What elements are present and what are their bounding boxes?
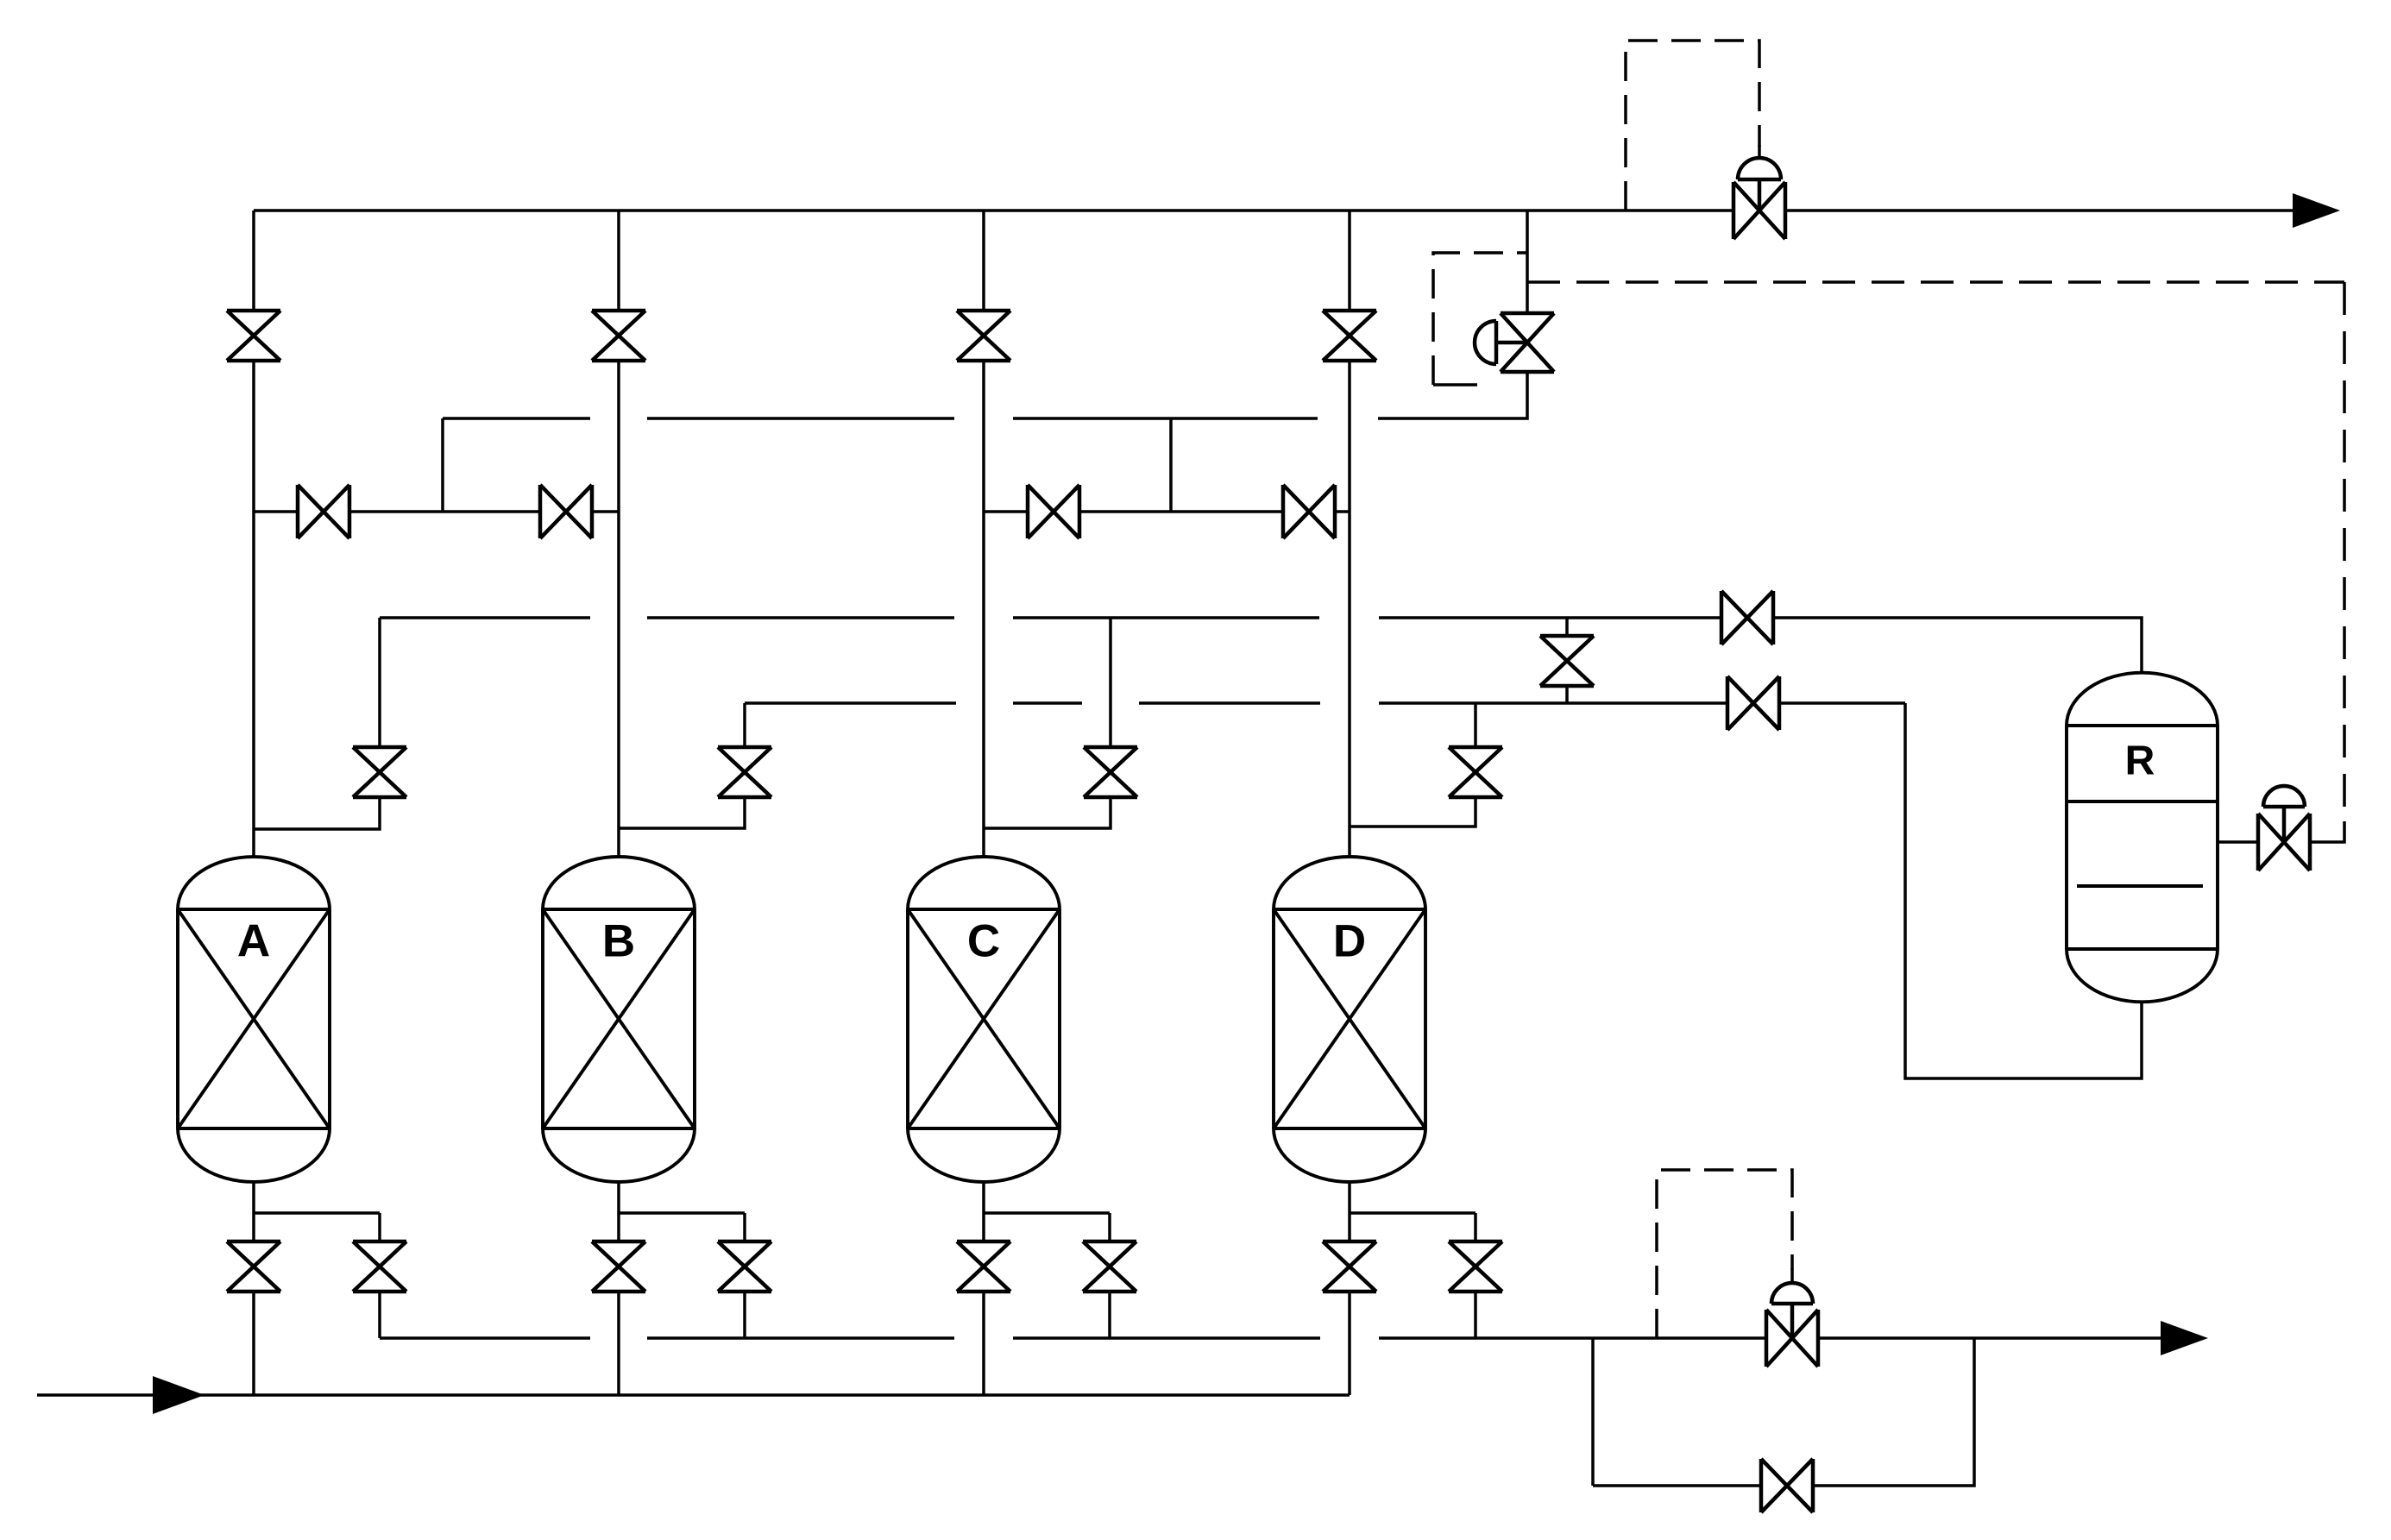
valve VD1 (column D to product header)	[1323, 311, 1376, 361]
svg-text:R: R	[2125, 739, 2155, 784]
wire A bottom branch	[254, 1211, 380, 1215]
wire B top elbow	[619, 797, 745, 828]
node riser junction x513	[441, 418, 444, 512]
wire D bottom branch	[1350, 1211, 1475, 1215]
wire B bottom right lower	[743, 1292, 746, 1338]
wire LV outlet corner	[2310, 821, 2344, 842]
wire tier-3 seg1	[745, 701, 956, 705]
valve VC3 (C to feed header)	[957, 1241, 1010, 1292]
wire column D upper	[1348, 211, 1351, 311]
wire equalisation line seg2	[647, 417, 954, 420]
wire purge header seg3	[1013, 1336, 1320, 1340]
wire B top drop	[743, 703, 746, 747]
svg-text:B: B	[602, 916, 635, 967]
valve V23	[1540, 636, 1594, 686]
wire top product header (left of PCV1)	[254, 209, 1733, 212]
valve VB2 (B top drop)	[718, 747, 771, 797]
valve VB4 (B to purge header)	[718, 1241, 771, 1292]
wire R bottom return loop	[1905, 703, 2142, 1078]
valve VA2 (A top drop)	[353, 747, 406, 797]
arrow feed inlet	[153, 1376, 204, 1414]
wire purge header seg5	[1818, 1336, 2162, 1340]
wire B bottom right stem	[743, 1213, 746, 1241]
wire column B lower	[617, 361, 620, 857]
wire tier-2 seg1	[380, 616, 590, 619]
valve VCD2	[1283, 485, 1335, 538]
wire C bottom left stem	[982, 1213, 985, 1241]
valve VD3 (D to feed header)	[1323, 1241, 1376, 1292]
wire D bottom nozzle	[1348, 1182, 1351, 1213]
arrow product outlet	[2293, 193, 2340, 228]
wire tier-2 seg5 + corner to R top	[1773, 618, 2142, 673]
valve VAB1	[298, 485, 349, 538]
svg-text:A: A	[237, 916, 270, 967]
actuator dome PV	[1475, 321, 1496, 364]
valve VAB2	[540, 485, 592, 538]
wire D bottom left lower	[1348, 1292, 1351, 1395]
wire B bottom nozzle	[617, 1182, 620, 1213]
wire B bottom branch	[619, 1211, 745, 1215]
wire A bottom right lower (purge header start corner)	[378, 1292, 381, 1338]
control valve LV2 (purge)	[1766, 1310, 1818, 1367]
valve VA3 (A to feed header)	[227, 1241, 280, 1292]
wire tie line C-D seg1	[984, 510, 1028, 513]
wire tier-3 seg4	[1379, 701, 1727, 705]
arrow purge outlet	[2161, 1321, 2208, 1355]
valve VB3 (B to feed header)	[592, 1241, 645, 1292]
valve V2R (tier-2)	[1721, 591, 1773, 644]
vessel D (adsorber)	[1274, 857, 1425, 1182]
wire bypass right	[1813, 1338, 1974, 1486]
node riser junction x1357	[1169, 418, 1173, 512]
valve VA1 (column A to product header)	[227, 311, 280, 361]
vessel C (adsorber)	[908, 857, 1060, 1182]
wire feed header	[37, 1393, 1350, 1397]
wire equalisation line seg3	[1013, 417, 1318, 420]
signal line PCV1 dome stub	[1758, 145, 1761, 159]
wire B bottom left lower	[617, 1292, 620, 1395]
wire C bottom right lower	[1108, 1292, 1111, 1338]
wire tie line A-B seg2	[349, 510, 540, 513]
signal line dashed box LV2	[1657, 1170, 1792, 1338]
svg-text:C: C	[967, 916, 1000, 967]
signal line dashed PV to LV (vertical)	[2343, 282, 2346, 821]
wire column A lower	[252, 361, 255, 857]
valve VB1 (column B to product header)	[592, 311, 645, 361]
wire purge header seg1	[380, 1336, 590, 1340]
wire A bottom left lower	[252, 1292, 255, 1395]
wire PV riser lower + corner to equalisation line	[1378, 372, 1527, 418]
valve VD4 (D to purge header)	[1449, 1241, 1502, 1292]
wire C top elbow	[984, 797, 1111, 828]
wire A top elbow	[254, 797, 380, 829]
wire bypass left	[1593, 1484, 1761, 1487]
control valve PCV1 (product header)	[1733, 182, 1785, 239]
control valve LV (R side)	[2258, 814, 2310, 871]
wire A top drop	[378, 618, 381, 747]
wire C bottom right stem	[1108, 1213, 1111, 1241]
valve V3R (tier-3)	[1727, 676, 1779, 730]
valve VBP (bypass)	[1761, 1459, 1813, 1512]
signal line dashed PV to LV (horizontal)	[1527, 280, 2344, 284]
wire purge header seg4	[1379, 1336, 1766, 1340]
wire column C upper	[982, 211, 985, 311]
wire tie line A-B seg3	[592, 510, 619, 513]
vessel A (adsorber)	[178, 857, 330, 1182]
wire column D lower	[1348, 361, 1351, 857]
wire D bottom right lower	[1474, 1292, 1477, 1338]
valve VD2 (D top drop)	[1449, 747, 1502, 797]
wire tie line A-B seg1	[254, 510, 298, 513]
valve VC2 (C top drop)	[1084, 747, 1137, 797]
control valve PV (vertical)	[1501, 313, 1554, 372]
wire tier-2 seg4	[1379, 616, 1721, 619]
wire tie line C-D seg3	[1335, 510, 1350, 513]
wire PV actuator stem	[1496, 341, 1527, 345]
wire PV riser upper	[1526, 211, 1529, 313]
actuator dome PCV1	[1738, 158, 1781, 179]
wire column A upper	[252, 211, 255, 311]
wire bypass down	[1591, 1338, 1595, 1486]
svg-text:D: D	[1333, 916, 1366, 967]
wire LV actuator stem	[2282, 807, 2287, 842]
signal line dashed box PV (left+top)	[1433, 253, 1527, 385]
wire tier-3 seg3	[1139, 701, 1320, 705]
wire stem tier2-tier3 lower	[1565, 686, 1569, 703]
wire C bottom left lower	[982, 1292, 985, 1395]
wire D top drop	[1474, 703, 1477, 747]
signal line LV2 dome stub	[1790, 1268, 1794, 1283]
wire R side nozzle	[2218, 840, 2258, 844]
wire D top elbow	[1350, 797, 1475, 827]
wire purge header seg2	[647, 1336, 954, 1340]
wire PCV1 actuator stem	[1758, 179, 1762, 211]
wire A bottom right stem	[378, 1213, 381, 1241]
wire C bottom branch	[984, 1211, 1110, 1215]
actuator dome LV	[2263, 786, 2305, 807]
wire tier-2 seg2	[647, 616, 954, 619]
valve VC4 (C to purge header)	[1083, 1241, 1136, 1292]
wire tier-2 seg3	[1013, 616, 1319, 619]
vessel B (adsorber)	[543, 857, 695, 1182]
valve VC1 (column C to product header)	[957, 311, 1010, 361]
wire equalisation line seg1	[443, 417, 590, 420]
wire A bottom left stem	[252, 1213, 255, 1241]
wire tier-3 seg5	[1779, 701, 1905, 705]
wire tier-3 seg2	[1013, 701, 1082, 705]
wire column B upper	[617, 211, 620, 311]
valve VA4 (A to purge header)	[353, 1241, 406, 1292]
signal line dashed PCV1	[1626, 41, 1759, 211]
wire C top drop	[1109, 618, 1112, 747]
wire LV2 actuator stem	[1790, 1304, 1795, 1338]
wire D bottom left stem	[1348, 1213, 1351, 1241]
wire stem tier2-tier3 upper	[1565, 618, 1569, 636]
wire B bottom left stem	[617, 1213, 620, 1241]
wire column C lower	[982, 361, 985, 857]
actuator dome LV2	[1771, 1283, 1813, 1304]
wire C bottom nozzle	[982, 1182, 985, 1213]
wire D bottom right stem	[1474, 1213, 1477, 1241]
valve VCD1	[1028, 485, 1079, 538]
wire PV positioner connector	[1433, 383, 1477, 387]
wire A bottom nozzle	[252, 1182, 255, 1213]
vessel R (receiver)	[2067, 673, 2218, 1003]
wire tie line C-D seg2	[1079, 510, 1283, 513]
wire top product header (right of PCV1)	[1785, 209, 2295, 212]
